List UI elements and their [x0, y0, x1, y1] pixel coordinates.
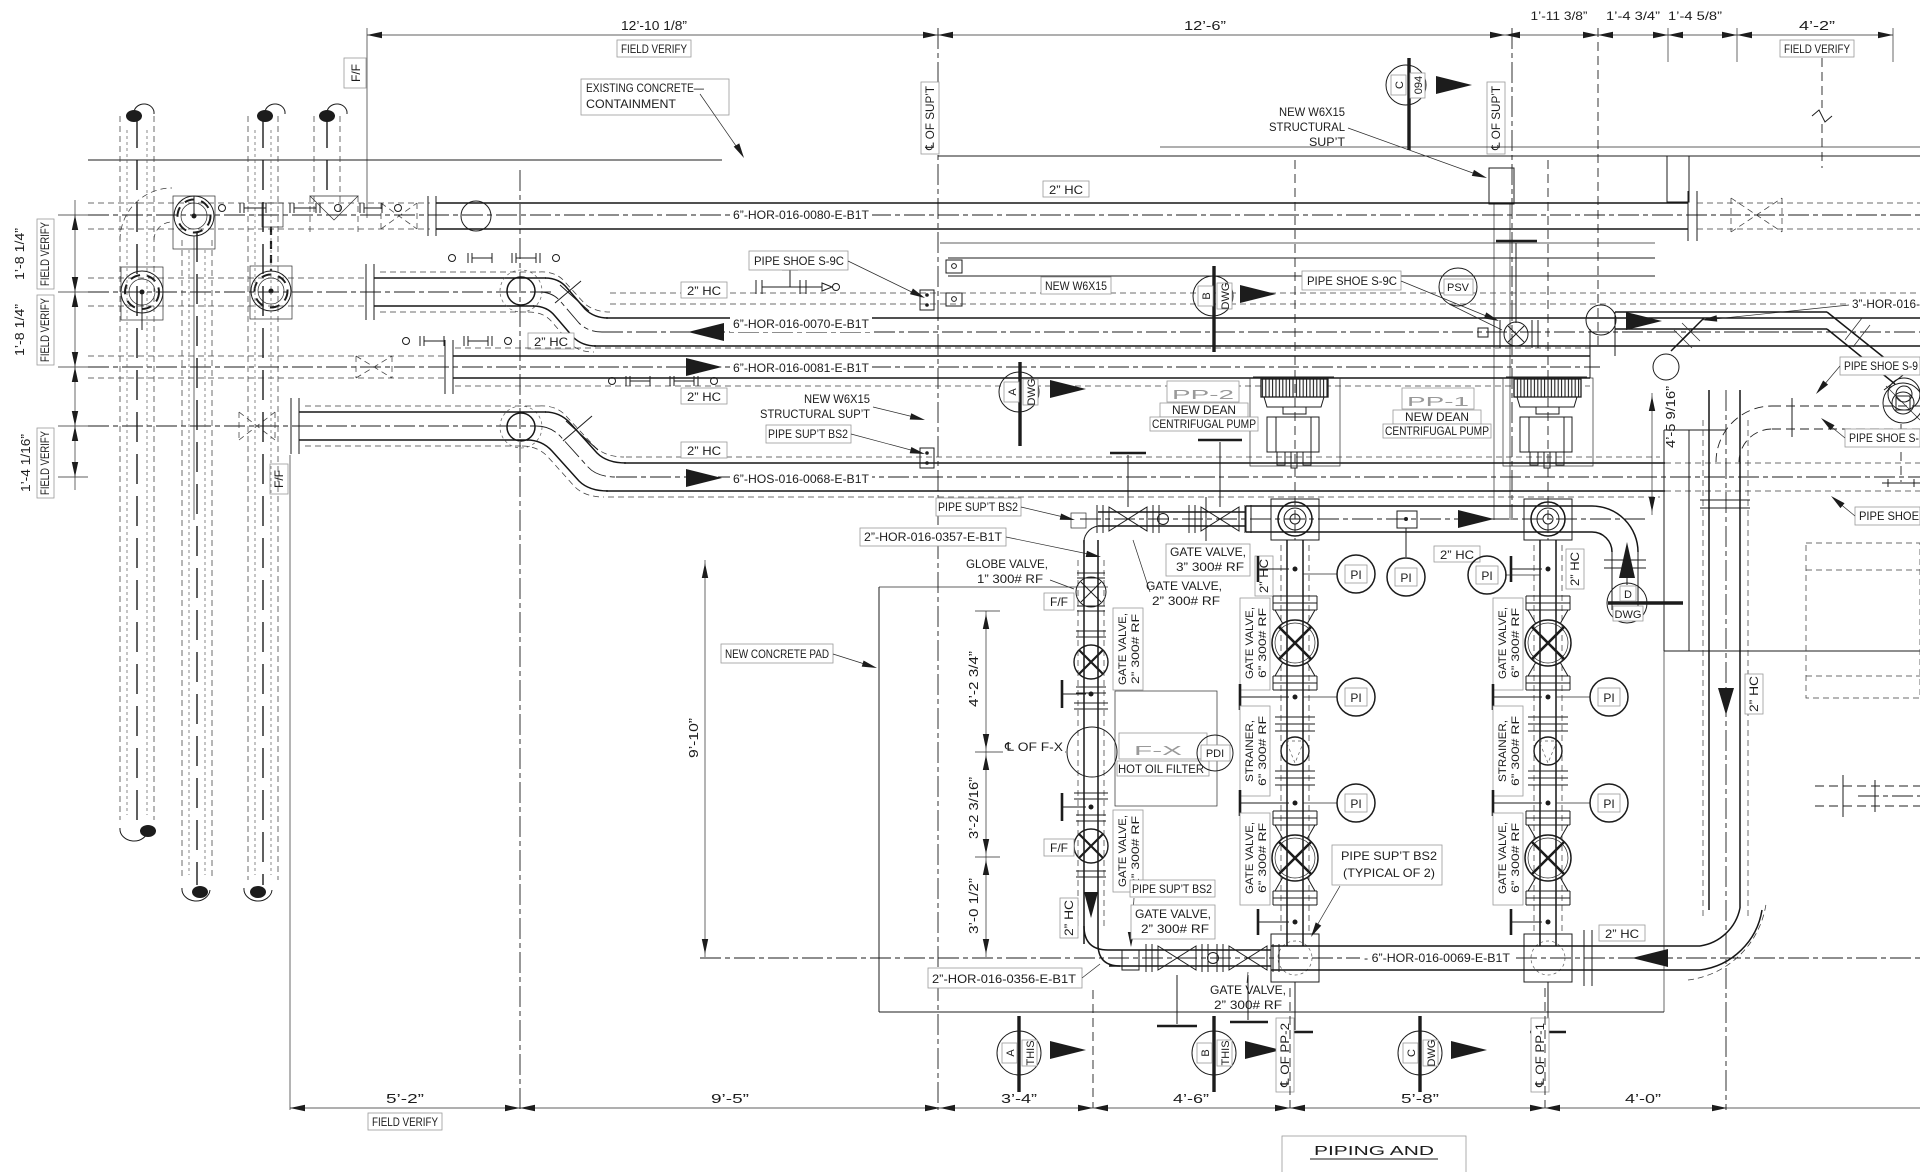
gate valve label	[1493, 813, 1523, 905]
svg-text:2” HC: 2” HC	[687, 390, 721, 404]
svg-text:PIPE SHOE S-9: PIPE SHOE S-9	[1844, 359, 1918, 373]
2" HC label run D	[681, 442, 727, 458]
svg-text:A: A	[1005, 1049, 1017, 1057]
pipe run D lower segment	[606, 463, 1665, 491]
svg-text:GATE VALVE,: GATE VALVE,	[1244, 822, 1256, 894]
suction tee PP-2	[1271, 499, 1319, 540]
tee block on run A with stem to handwheel	[262, 203, 283, 271]
gate valve label	[1240, 598, 1270, 690]
svg-text:2” HC: 2” HC	[1049, 183, 1083, 197]
ghost pipe run C left	[88, 356, 446, 378]
existing concrete containment edge	[88, 159, 722, 161]
svg-text:B: B	[1200, 1049, 1212, 1056]
PSV instrument circle	[1439, 268, 1502, 330]
svg-text:B: B	[1201, 292, 1213, 299]
PIPE SUP'T BS2 TYPICAL label	[1308, 845, 1442, 939]
NEW W6X15 label box mid	[1041, 277, 1111, 294]
pipe label 6"-HOR-016-0080-E-B1T	[730, 206, 872, 223]
3" pipe to east	[1615, 312, 1827, 329]
svg-text:9’-10”: 9’-10”	[686, 718, 701, 758]
svg-text:PIPE SHOE S-9C: PIPE SHOE S-9C	[1307, 274, 1397, 288]
PP-2 pump label	[1150, 381, 1258, 431]
riser circle on run D	[500, 406, 542, 448]
svg-text:9’-5”: 9’-5”	[711, 1091, 749, 1106]
ghost outline run B east	[610, 293, 1920, 304]
svg-text:STRAINER,: STRAINER,	[1497, 720, 1509, 782]
FIELD VERIFY box bottom	[368, 1113, 442, 1130]
pump PP-2 body	[1267, 417, 1319, 468]
EXISTING CONCRETE CONTAINMENT label	[581, 79, 747, 160]
svg-text:GATE VALVE,: GATE VALVE,	[1210, 983, 1286, 997]
svg-text:FIELD VERIFY: FIELD VERIFY	[38, 431, 52, 495]
PIPE SUP'T BS2 label left	[766, 425, 926, 457]
2" HC label header	[1599, 925, 1645, 941]
svg-text:1’-4 3/4”: 1’-4 3/4”	[1606, 9, 1660, 23]
svg-text:STRUCTURAL: STRUCTURAL	[1269, 120, 1345, 134]
ghost elbow arcs top left	[120, 188, 172, 240]
gate valve top PP-2	[1272, 596, 1318, 690]
right side ghost piping group	[1806, 543, 1920, 817]
C OF F-X label	[1000, 738, 1066, 754]
svg-text:PIPE SUP’T BS2: PIPE SUP’T BS2	[938, 500, 1018, 514]
PIPE SUP'T BS2 label mid	[936, 498, 1076, 523]
svg-text:6” 300# RF: 6” 300# RF	[1510, 716, 1522, 786]
svg-text:094: 094	[1413, 76, 1425, 94]
centerline of support x=938	[937, 28, 939, 1110]
gate valve 2" lower F-X	[1074, 815, 1108, 877]
svg-text:6”-HOR-016-0080-E-B1T: 6”-HOR-016-0080-E-B1T	[733, 208, 870, 222]
flanged riser cluster on 3" diagonal	[1882, 383, 1920, 487]
left dimension line vertical	[58, 200, 88, 490]
ghost valve run A right	[1697, 198, 1920, 232]
ghost outline run C	[455, 348, 1590, 386]
section flag C DWG bottom	[1398, 1016, 1487, 1092]
gate valve bottom PP-2	[1272, 811, 1318, 905]
concrete pad outline	[879, 430, 1920, 1012]
gate valve 2" upper F-X	[1074, 631, 1108, 693]
PI connection mid PP-2	[1240, 678, 1375, 716]
svg-text:6”-HOR-016-0070-E-B1T: 6”-HOR-016-0070-E-B1T	[733, 317, 870, 331]
svg-text:2” HC: 2” HC	[1440, 548, 1474, 562]
right riser centerline	[1725, 390, 1727, 1110]
bottom header centerline	[700, 957, 1920, 959]
svg-text:F/F: F/F	[1050, 595, 1068, 609]
flange pair on header	[1584, 930, 1592, 986]
svg-text:HOT OIL FILTER: HOT OIL FILTER	[1118, 762, 1204, 776]
ghost flange glyph strip run A	[219, 203, 402, 213]
gate valve label	[1493, 598, 1523, 690]
centerline run D	[88, 426, 1920, 477]
svg-text:3” 300# RF: 3” 300# RF	[1176, 560, 1244, 574]
PIPE SUP'T BS2 label small	[1128, 880, 1215, 947]
W6X15 support column	[1489, 168, 1514, 520]
svg-text:D: D	[1624, 589, 1632, 601]
F/F label run D	[270, 464, 288, 494]
svg-text:6” 300# RF: 6” 300# RF	[1510, 823, 1522, 893]
svg-text:2” 300# RF: 2” 300# RF	[1130, 614, 1142, 684]
valve handwheel circle run B east	[250, 266, 292, 319]
svg-text:FIELD VERIFY: FIELD VERIFY	[1784, 42, 1850, 56]
svg-text:6” 300# RF: 6” 300# RF	[1257, 608, 1269, 678]
svg-text:1’-4 1/16”: 1’-4 1/16”	[18, 434, 33, 492]
gate valve 2" on suction	[1097, 453, 1169, 533]
3" pipe diagonal	[1827, 312, 1920, 410]
svg-text:GATE VALVE,: GATE VALVE,	[1170, 545, 1246, 559]
PI connection lower PP-2	[1240, 784, 1375, 822]
svg-text:1’-8 1/4”: 1’-8 1/4”	[12, 304, 27, 356]
ghost riser bundle 1	[120, 104, 156, 841]
NEW CONCRETE PAD label	[721, 644, 878, 671]
F/F box upper	[1044, 593, 1074, 610]
F-X dim line	[966, 611, 1000, 957]
GATE VALVE 3" label suction	[1166, 544, 1250, 576]
centerline run C	[88, 366, 1600, 368]
FIELD VERIFY box left	[617, 40, 691, 57]
bottom tee PP-2	[1271, 934, 1319, 1032]
svg-text:STRUCTURAL SUP’T: STRUCTURAL SUP’T	[760, 407, 871, 421]
PIPE SHOE S-9C label mid	[1302, 271, 1500, 324]
svg-text:6”-HOR-016-0081-E-B1T: 6”-HOR-016-0081-E-B1T	[733, 361, 870, 375]
svg-text:F-X: F-X	[1134, 743, 1183, 758]
strainer label	[1493, 706, 1523, 796]
svg-text:NEW W6X15: NEW W6X15	[1279, 105, 1345, 119]
ghost riser bundle 2	[182, 232, 212, 901]
S-bend run D	[522, 406, 626, 497]
instrument tap lower PP-2	[1258, 909, 1298, 935]
ghost outline run D east	[608, 457, 1660, 497]
svg-text:12’-6”: 12’-6”	[1184, 18, 1226, 33]
svg-text:PP-2: PP-2	[1172, 387, 1234, 402]
flow arrow down	[1084, 892, 1098, 918]
svg-text:2”-HOR-016-0356-E-B1T: 2”-HOR-016-0356-E-B1T	[932, 972, 1077, 986]
svg-text:PP-1: PP-1	[1407, 394, 1469, 409]
flange run A x=430	[428, 196, 436, 236]
section flag A THIS bottom	[997, 1016, 1086, 1092]
svg-text:5’-2”: 5’-2”	[386, 1091, 424, 1106]
section flag D DWG	[1607, 542, 1683, 623]
svg-text:5’-8”: 5’-8”	[1401, 1091, 1439, 1106]
ghost valve bowtie run A	[381, 203, 417, 229]
svg-text:GATE VALVE,: GATE VALVE,	[1117, 613, 1129, 685]
tee fitting on run A	[310, 196, 358, 234]
GATE VALVE 2" label suction	[1133, 540, 1222, 608]
grid centerline x=520	[519, 170, 521, 1110]
svg-text:12’-10 1/8”: 12’-10 1/8”	[621, 18, 687, 33]
svg-text:PIPE SHOE S-9C: PIPE SHOE S-9C	[754, 254, 844, 268]
2" HC rotated label train PP-2	[1255, 556, 1273, 596]
PI connection lower PP-1	[1493, 784, 1628, 822]
svg-text:GATE VALVE,: GATE VALVE,	[1117, 815, 1129, 887]
tap with tee lower	[1062, 793, 1108, 821]
GATE VALVE 2" label upper rotated	[1113, 608, 1143, 690]
suction header 2" segment	[1098, 512, 1246, 526]
svg-text:CENTRIFUGAL PUMP: CENTRIFUGAL PUMP	[1385, 424, 1489, 438]
svg-text:NEW DEAN: NEW DEAN	[1172, 403, 1236, 417]
gate valve bottom PP-1	[1525, 811, 1571, 905]
pump riser centerline verticals	[1294, 160, 1296, 540]
bottom tee PP-1	[1524, 934, 1572, 1032]
2" HC rotated label F-X line	[1060, 898, 1078, 938]
svg-text:C: C	[1394, 81, 1406, 89]
ghost flange glyph strip run C	[403, 336, 512, 346]
grid vertical x=290	[289, 455, 291, 1110]
svg-text:PIPE SUP’T BS2: PIPE SUP’T BS2	[1341, 849, 1437, 863]
svg-text:GATE VALVE,: GATE VALVE,	[1135, 907, 1211, 921]
C OF SUP'T label right	[1487, 82, 1505, 154]
tap with tee upper	[1062, 680, 1108, 709]
right riser pipe vertical	[1700, 390, 1750, 920]
gate valve 2" east on header	[1217, 944, 1279, 1022]
svg-text:2”-HOR-016-0357-E-B1T: 2”-HOR-016-0357-E-B1T	[864, 530, 1003, 544]
ghost flange glyph strip run D	[609, 376, 718, 386]
flow arrow run B	[688, 323, 724, 341]
riser circle on run B	[500, 270, 542, 312]
S-bend run B	[528, 272, 610, 352]
suction tee PP-1	[1524, 499, 1572, 540]
svg-text:PIPE SHOE: PIPE SHOE	[1859, 509, 1919, 523]
svg-text:2” HC: 2” HC	[1568, 552, 1582, 586]
instrument tap upper PP-1	[1511, 556, 1551, 582]
F-X label	[1117, 733, 1209, 776]
gate valve top PP-1	[1525, 596, 1571, 690]
pipe run C solid	[453, 356, 1590, 378]
train pipe PP-2	[1286, 540, 1288, 946]
centerline run A	[88, 214, 1920, 216]
spool circle between valves	[1208, 953, 1219, 964]
pipe run A solid	[436, 203, 1688, 229]
flow arrow run D	[686, 469, 722, 487]
break line with squiggle x=1822	[1812, 58, 1832, 168]
F-X equipment box	[1115, 691, 1217, 806]
centerline of support x=1512	[1511, 28, 1513, 520]
svg-text:STRAINER,: STRAINER,	[1244, 720, 1256, 782]
svg-text:1’-11 3/8”: 1’-11 3/8”	[1531, 9, 1588, 23]
svg-text:3’-2 3/16”: 3’-2 3/16”	[966, 777, 981, 839]
pipe run D upper segment	[299, 406, 546, 446]
svg-text:NEW W6X15: NEW W6X15	[804, 392, 870, 406]
svg-text:DWG: DWG	[1026, 379, 1038, 406]
strainer PP-1	[1528, 717, 1568, 785]
svg-text:F/F: F/F	[1050, 841, 1068, 855]
svg-text:PIPE SHOE S-: PIPE SHOE S-	[1849, 431, 1919, 445]
section flag A DWG	[999, 362, 1086, 446]
svg-text:THIS: THIS	[1025, 1040, 1037, 1065]
valve handwheel circle run B west	[121, 267, 163, 330]
title block	[1282, 1136, 1466, 1172]
ghost valve bowtie run D	[239, 412, 275, 440]
PIPE SHOE label right 3	[1829, 494, 1920, 525]
flange run D x=300	[291, 398, 299, 454]
dim 4'-5 9/16"	[1649, 386, 1678, 515]
extension line x=367	[366, 28, 368, 218]
globe valve 1"	[1076, 573, 1106, 611]
pump PP-2 motor	[1250, 377, 1340, 466]
2" riser pipe F-X	[1083, 540, 1085, 944]
svg-text:6”-HOS-016-0068-E-B1T: 6”-HOS-016-0068-E-B1T	[733, 472, 870, 486]
svg-text:4’-5 9/16”: 4’-5 9/16”	[1663, 386, 1678, 448]
2" HC label S-bend B	[528, 333, 574, 349]
suction elbow top of F-X line	[1084, 526, 1098, 545]
svg-text:A: A	[1007, 388, 1019, 396]
strainer PP-2	[1275, 717, 1315, 785]
pipe run B upper segment	[374, 272, 546, 312]
svg-text:4’-2”: 4’-2”	[1799, 18, 1835, 33]
svg-text:FIELD VERIFY: FIELD VERIFY	[38, 298, 52, 362]
pipe label 6"-HOR-016-0069-E-B1T	[1360, 949, 1512, 966]
svg-text:- 6”-HOR-016-0069-E-B1T: - 6”-HOR-016-0069-E-B1T	[1364, 951, 1511, 965]
svg-text:F/F: F/F	[272, 470, 286, 488]
svg-text:2” HC: 2” HC	[1605, 927, 1639, 941]
extension line x=1598 dashed	[1597, 28, 1599, 345]
valve handwheel circle on run A	[173, 196, 215, 520]
ghost equipment box right	[1806, 543, 1920, 698]
svg-text:DWG: DWG	[1615, 609, 1642, 621]
2" HC rotated label train PP-1	[1566, 549, 1584, 589]
svg-text:F/F: F/F	[349, 64, 363, 82]
svg-text:2” 300# RF: 2” 300# RF	[1141, 922, 1209, 936]
suction header right elbow	[1592, 506, 1646, 610]
PI connection mid PP-1	[1493, 678, 1628, 716]
train centerline extensions	[1289, 988, 1291, 1108]
section flag C 094	[1386, 58, 1472, 150]
svg-text:FIELD VERIFY: FIELD VERIFY	[621, 42, 687, 56]
svg-text:4’-0”: 4’-0”	[1625, 1091, 1661, 1106]
ghost elbow to dashed pipe right	[1716, 398, 1920, 462]
strainer label	[1240, 706, 1270, 796]
ghost riser bundle 3	[244, 104, 285, 901]
ghost pipe far right lower	[1815, 785, 1920, 787]
pipe label 6"-HOR-016-0081-E-B1T	[730, 359, 872, 376]
svg-text:6” 300# RF: 6” 300# RF	[1510, 608, 1522, 678]
svg-text:C: C	[1406, 1049, 1418, 1057]
PDI instrument circle	[1197, 735, 1233, 771]
C OF SUP'T label left	[921, 82, 939, 154]
flow arrow 3" line	[1626, 312, 1662, 330]
F/F box top	[344, 58, 366, 88]
bottom dimension line	[290, 1105, 1920, 1111]
svg-text:GATE VALVE,: GATE VALVE,	[1244, 607, 1256, 679]
2"-HOR-016-0357-E-B1T label	[860, 528, 1102, 560]
2" HC label suction	[1434, 546, 1480, 562]
F/F box lower	[1044, 839, 1074, 856]
svg-text:PIPE SUP’T BS2: PIPE SUP’T BS2	[768, 427, 848, 441]
ghost valve bowtie run C	[356, 356, 392, 378]
svg-text:3”-HOR-016-: 3”-HOR-016-	[1852, 297, 1920, 311]
suction header 6" segment	[1246, 506, 1592, 532]
svg-text:PIPE SUP’T BS2: PIPE SUP’T BS2	[1132, 882, 1212, 896]
riser circle on run A	[461, 201, 491, 231]
svg-text:NEW CONCRETE PAD: NEW CONCRETE PAD	[725, 647, 829, 661]
flange run A right x=1690	[1688, 191, 1697, 241]
GATE VALVE 2" label header west	[1131, 905, 1215, 939]
pipe shoe plates on beam x=938	[920, 290, 934, 468]
flange run B x=367	[366, 264, 374, 320]
pipe label 3"-HOR-016	[1702, 295, 1920, 323]
svg-text:PSV: PSV	[1447, 282, 1470, 294]
svg-text:NEW DEAN: NEW DEAN	[1405, 410, 1469, 424]
svg-text:GLOBE VALVE,: GLOBE VALVE,	[966, 557, 1048, 571]
NEW W6X15 STRUCTURAL SUP'T label left	[760, 392, 926, 423]
ghost run D right	[1665, 463, 1920, 491]
bottom header 2" segment	[1108, 950, 1271, 966]
svg-text:4’-6”: 4’-6”	[1173, 1091, 1209, 1106]
heat trace line run A	[940, 242, 1655, 244]
ghost pipe run B left	[88, 278, 367, 306]
pipe support BS2 small	[1122, 950, 1139, 970]
svg-text:(TYPICAL OF 2): (TYPICAL OF 2)	[1343, 866, 1435, 880]
gate valve 3" on suction	[1189, 440, 1251, 541]
svg-text:℄ OF SUP’T: ℄ OF SUP’T	[1489, 85, 1503, 151]
PP-1 pump label	[1383, 388, 1491, 438]
svg-text:1’-8 1/4”: 1’-8 1/4”	[12, 228, 27, 280]
dim 9'-10" vertical	[686, 560, 708, 957]
PI connection top PP-2	[1303, 555, 1375, 593]
flow arrow header west	[1632, 949, 1668, 967]
pump PP-1 body	[1520, 417, 1572, 468]
header east elbow	[1688, 904, 1766, 980]
instrument tap on suction	[1397, 511, 1417, 557]
pipe label 6"-HOR-016-0070-E-B1T	[730, 315, 872, 332]
svg-text:FIELD VERIFY: FIELD VERIFY	[372, 1115, 438, 1129]
pipe label 6"-HOS-016-0068-E-B1T	[730, 470, 872, 487]
svg-text:℄ OF F-X: ℄ OF F-X	[1004, 740, 1063, 754]
FIELD VERIFY box right	[1780, 40, 1854, 57]
svg-text:2” 300# RF: 2” 300# RF	[1130, 816, 1142, 886]
GLOBE VALVE label	[966, 557, 1074, 589]
flange run C x=446	[445, 340, 453, 394]
svg-text:EXISTING CONCRETE—: EXISTING CONCRETE—	[586, 81, 704, 95]
bottom header 6" segment	[1271, 946, 1700, 970]
PIPE SHOE S-9C label left	[749, 251, 926, 301]
svg-text:2” HC: 2” HC	[687, 284, 721, 298]
svg-text:1’-4 5/8”: 1’-4 5/8”	[1668, 9, 1722, 23]
instrument tap lower PP-1	[1511, 909, 1551, 935]
svg-text:THIS: THIS	[1220, 1040, 1232, 1065]
flow arrow down riser	[1718, 688, 1734, 715]
3" discharge jog riser	[1586, 305, 1616, 378]
PSV relief valve assembly	[1478, 241, 1538, 348]
svg-text:CENTRIFUGAL PUMP: CENTRIFUGAL PUMP	[1152, 417, 1256, 431]
svg-text:4’-2 3/4”: 4’-2 3/4”	[966, 651, 981, 707]
NEW W6X15 STRUCTURAL SUP'T label top	[1269, 105, 1488, 181]
45 branch down-left from 3" line	[1653, 318, 1704, 380]
F-X filter circle	[1067, 727, 1117, 777]
svg-text:PIPING AND: PIPING AND	[1314, 1143, 1434, 1158]
instrument tap upper PP-2	[1258, 556, 1298, 582]
svg-text:GATE VALVE,: GATE VALVE,	[1497, 607, 1509, 679]
suction header centerline	[1080, 518, 1648, 520]
ghost flange glyph strip run B upper	[449, 253, 560, 263]
svg-text:SUP’T: SUP’T	[1309, 135, 1346, 149]
svg-text:3’-4”: 3’-4”	[1001, 1091, 1037, 1106]
ghost pipe run A left	[88, 203, 430, 229]
pipe run B lower segment	[594, 318, 1920, 346]
2" HC rotated label riser	[1745, 674, 1763, 714]
svg-text:2” HC: 2” HC	[534, 335, 568, 349]
C OF PP-2 label	[1276, 1018, 1294, 1092]
section flag B THIS bottom	[1192, 1016, 1281, 1092]
2" HC label run A	[1043, 181, 1089, 197]
flow arrow run C	[686, 358, 722, 376]
svg-text:3’-0 1/2”: 3’-0 1/2”	[966, 878, 981, 934]
svg-text:2” HC: 2” HC	[1747, 676, 1761, 712]
2" HC label run B	[681, 282, 727, 298]
W6X15 beam plan lines	[946, 258, 1655, 306]
svg-text:2” HC: 2” HC	[687, 444, 721, 458]
top right beam line	[938, 147, 1920, 202]
train pipe PP-1	[1539, 540, 1541, 946]
flow arrow suction header	[1458, 510, 1494, 528]
